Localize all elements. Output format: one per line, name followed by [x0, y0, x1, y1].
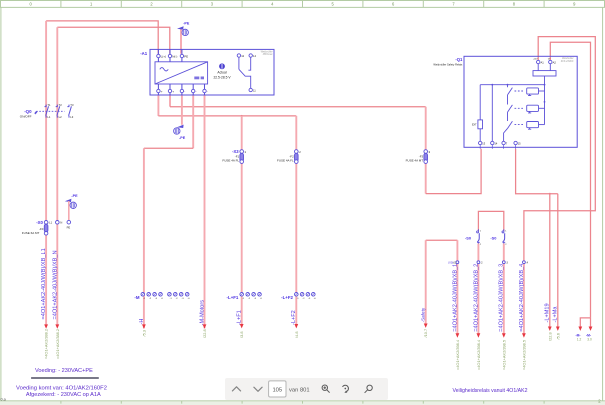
svg-text:van 801: van 801: [289, 387, 310, 393]
wire XB_4 below terminal circle to sheet arrow: [523, 262, 525, 334]
pin A1 of Q1: [537, 60, 540, 63]
emergency stop contact S0 at x=478.4: [465, 229, 482, 246]
svg-text:FUSE 4A FL: FUSE 4A FL: [277, 159, 294, 163]
svg-text:-L+F2: -L+F2: [281, 295, 293, 300]
svg-text:-: -: [184, 90, 185, 94]
pin 7 of Q1: [502, 141, 505, 144]
svg-text:/4.8: /4.8: [294, 332, 299, 339]
svg-text:-S0: -S0: [465, 236, 471, 241]
svg-text:/22.8: /22.8: [547, 332, 552, 341]
svg-text:=4O1+AK2-40J/W(B)/XB_1: =4O1+AK2-40J/W(B)/XB_1: [452, 264, 458, 332]
svg-text::4: :4: [526, 262, 529, 265]
svg-text:=4O1+AK2/388.2: =4O1+AK2/388.2: [44, 329, 49, 359]
plug pin :2: [477, 261, 480, 264]
svg-text:14: 14: [253, 54, 256, 58]
pin 15 of Q1: [514, 141, 517, 144]
svg-text:-L+F2: -L+F2: [291, 310, 297, 325]
svg-text:-0: -0: [260, 298, 263, 300]
svg-text:+: +: [161, 90, 163, 94]
svg-text:+24V: +24V: [533, 58, 538, 60]
page navigation toolbar: [225, 378, 388, 400]
svg-text:-1: -1: [242, 298, 245, 300]
wire L1 vertical through -Q0, -X0:L1 and -F0 down to sheet arrow: [45, 21, 47, 325]
wire N vertical through -Q0 and -X0:N down to sheet arrow: [56, 27, 58, 324]
svg-text:L2: L2: [59, 115, 62, 119]
svg-text:-1: -1: [143, 298, 146, 300]
svg-text:Weidmüller: Weidmüller: [562, 58, 574, 60]
svg-text:T1: T1: [47, 103, 51, 107]
sheet description texts: [16, 368, 528, 398]
svg-text:/3.8: /3.8: [239, 332, 244, 339]
junction 15-bus / -L+M19: [549, 193, 551, 195]
svg-text:7: 7: [452, 2, 455, 7]
svg-text:=4O1+AK2/398.5: =4O1+AK2/398.5: [521, 340, 526, 370]
terminal row -L+F2 connector: [281, 293, 316, 301]
svg-text:FUSE 4A MT: FUSE 4A MT: [406, 159, 424, 163]
pin PE of A1: [180, 54, 183, 57]
pin + output of A1: [168, 89, 171, 92]
svg-text:8: 8: [513, 2, 516, 7]
svg-text:-X3: -X3: [232, 149, 239, 154]
svg-text:2: 2: [150, 2, 153, 7]
svg-text:=4O1+AK2-40J/W(B)/XB_2: =4O1+AK2-40J/W(B)/XB_2: [473, 264, 479, 332]
A1 DC-ok relay contact pins 12 14 11: [237, 54, 240, 57]
svg-text:-S0: -S0: [490, 236, 496, 241]
pin - output of A1: [180, 89, 183, 92]
svg-text:-: -: [196, 90, 197, 94]
svg-text:-0: -0: [314, 298, 317, 300]
junction +24V bus / -F1: [241, 115, 243, 117]
off-sheet arrow -M-Motors: [203, 324, 207, 328]
svg-text:-Safety: -Safety: [421, 307, 426, 322]
svg-text:-L+F1: -L+F1: [227, 295, 239, 300]
svg-text:Voeding: - 230VAC+PE: Voeding: - 230VAC+PE: [35, 368, 93, 374]
svg-text:9: 9: [573, 2, 576, 7]
wire A2 stub to second -M- arrow: [590, 318, 592, 327]
off-sheet arrow -L+F1: [240, 324, 244, 328]
svg-text:Veiligheidsrelais vanuit 4O1/A: Veiligheidsrelais vanuit 4O1/AK2: [453, 388, 528, 394]
svg-text:Voeding komt van: 4O1/AK2/160F: Voeding komt van: 4O1/AK2/160F2: [16, 385, 107, 391]
svg-text:1: 1: [505, 231, 507, 233]
svg-text:2: 2: [480, 244, 482, 246]
svg-text:-2: -2: [149, 298, 152, 300]
svg-text:-PE: -PE: [183, 21, 190, 25]
svg-text:L3: L3: [70, 115, 73, 119]
svg-text:-2: -2: [248, 298, 251, 300]
svg-text:6: 6: [392, 2, 395, 7]
wire XB_1 through terminal circle to sheet arrow: [456, 240, 458, 334]
svg-text::3: :3: [506, 262, 509, 265]
pin L(+) of A1: [157, 54, 160, 57]
ground PE symbol at -X0 PE terminal: [65, 194, 78, 209]
svg-text:=4O1+AK2/398.5: =4O1+AK2/398.5: [501, 340, 506, 370]
wire -Safety down to sheet arrow: [425, 240, 427, 324]
wire L1: -Q0 T1 up and over to -A1 L(+): [46, 21, 158, 54]
wire +24V out of -A1 terminal + (2): [169, 95, 171, 107]
svg-text:Actual: Actual: [217, 70, 226, 74]
svg-text:-A1: -A1: [140, 51, 148, 56]
svg-text:+: +: [172, 90, 174, 94]
emergency stop contact S0 at x=503.8: [490, 229, 507, 246]
svg-text:=4O1+AK2-40J/W(B)/XB_N: =4O1+AK2-40J/W(B)/XB_N: [52, 250, 58, 319]
wire +24V horizontal feed to -F3: [170, 106, 426, 108]
svg-text:-3: -3: [155, 298, 158, 300]
svg-text:-2: -2: [176, 298, 179, 300]
svg-text:105: 105: [272, 388, 282, 394]
svg-text:1.2: 1.2: [577, 338, 582, 342]
wire XB_3 below -S0 to sheet arrow: [503, 244, 505, 335]
wire XB_2 below -S0 to sheet arrow: [477, 244, 479, 335]
svg-text:-3: -3: [182, 298, 185, 300]
svg-text:-0: -0: [161, 298, 164, 300]
pin - output of A1: [203, 89, 206, 92]
off-sheet arrow -Safety: [424, 324, 428, 328]
wire from -F3 to -Q1 terminal 13: [426, 149, 481, 194]
off-sheet arrow -M- (2): [589, 327, 593, 331]
svg-text:12: 12: [241, 54, 244, 58]
search icon: [365, 385, 373, 393]
wire -M-Motors from -A1 minus terminal down to sheet arrow: [204, 95, 206, 328]
pin N(-) of A1: [168, 54, 171, 57]
wire from -Q1 terminal 15 to -L+M19 / -L+Ma: [516, 149, 558, 194]
svg-text:7: 7: [506, 141, 508, 145]
forced contacts of Q1: [504, 84, 545, 142]
svg-text:4: 4: [271, 2, 274, 7]
svg-text:A1: A1: [541, 60, 545, 64]
svg-text:-PE: -PE: [71, 194, 78, 198]
terminal row -L+F1 connector: [227, 293, 263, 301]
wire PE stub from PE symbol to -A1 PE terminal: [180, 29, 182, 54]
safety relay Q1: [433, 56, 577, 149]
ground PE symbol at top near -A1: [177, 21, 190, 35]
svg-text:-PE: -PE: [179, 136, 186, 140]
wire -L+M19 down to sheet arrow: [549, 194, 551, 327]
svg-text:-L+Ma: -L+Ma: [553, 306, 559, 323]
svg-text:T2: T2: [59, 103, 63, 107]
svg-text::N: :N: [60, 221, 63, 225]
svg-text:N(-): N(-): [172, 55, 177, 59]
title underline: [31, 377, 99, 378]
svg-text:PE: PE: [67, 226, 71, 230]
svg-text:L(+): L(+): [161, 55, 166, 59]
svg-text:5: 5: [332, 2, 335, 7]
AC/DC converter symbol: [155, 62, 208, 84]
pin A2 of Q1: [549, 60, 552, 63]
svg-text:-1: -1: [170, 298, 173, 300]
svg-text::1: :1: [244, 150, 247, 154]
svg-text:1: 1: [480, 231, 482, 233]
svg-text:Afgezekerd: - 230VAC op A1A: Afgezekerd: - 230VAC op A1A: [26, 392, 101, 398]
off-sheet arrow -L+Ma: [556, 327, 560, 331]
svg-text:3.0: 3.0: [587, 338, 592, 342]
svg-text:2: 2: [505, 244, 507, 246]
wire +24V horizontal bus feeding -F1 and -F2: [158, 115, 296, 117]
svg-text:14: 14: [494, 141, 497, 145]
off-sheet arrow XB_2: [477, 333, 481, 337]
power supply unit A1: [140, 49, 274, 95]
fuse -F2 FUSE 4A FL on -X3:2: [277, 150, 301, 164]
zoom-in icon: [322, 385, 330, 393]
svg-text:-Q1: -Q1: [455, 57, 463, 62]
svg-text:/5.3: /5.3: [141, 330, 146, 337]
svg-text:11: 11: [253, 88, 256, 92]
svg-text:-0: -0: [188, 298, 191, 300]
off-sheet arrow XB_1: [456, 333, 460, 337]
svg-text:=4O1+AK2/398.4: =4O1+AK2/398.4: [476, 339, 481, 370]
fit/rotate icon: [343, 385, 349, 393]
svg-text:/5.6: /5.6: [555, 333, 560, 340]
svg-text:-3: -3: [308, 298, 311, 300]
svg-text:-H: -H: [139, 319, 145, 325]
svg-text:-: -: [207, 90, 208, 94]
svg-text:SCS 24VDC: SCS 24VDC: [561, 60, 574, 63]
svg-text:=4O1+AK2-40J/W(B)/XB_L1: =4O1+AK2-40J/W(B)/XB_L1: [41, 248, 47, 319]
wire bridge -Safety to XB_1: [426, 239, 458, 241]
wire 0V horizontal to -H branch: [144, 147, 193, 149]
off-sheet arrow XB_L1: [44, 324, 48, 328]
plug pin :01: [456, 261, 459, 264]
svg-text::2: :2: [299, 150, 302, 154]
svg-text:/10.7: /10.7: [423, 329, 428, 338]
svg-text:15: 15: [518, 141, 521, 145]
svg-text::3: :3: [428, 150, 431, 154]
off-sheet arrow -H: [142, 324, 146, 328]
output adjust knob, Actual 22.5-28.5 V: [219, 63, 225, 69]
wire -L+F1 through fuse -F1 down to sheet arrow: [241, 116, 243, 325]
off-sheet arrow XB_3: [502, 333, 506, 337]
plug pin :3: [502, 261, 505, 264]
svg-text:0: 0: [30, 2, 33, 7]
svg-text:-M-Motors: -M-Motors: [199, 300, 205, 326]
svg-text:-3: -3: [254, 298, 257, 300]
terminal X0:PE: [67, 220, 71, 224]
wire 0V from -A1 minus terminal (2): [192, 95, 194, 148]
svg-text:22.5-28.5 V: 22.5-28.5 V: [213, 76, 231, 80]
svg-text:EXT: EXT: [472, 124, 477, 127]
svg-text:A2: A2: [553, 60, 557, 64]
svg-text:=4O1+AK2/388.2: =4O1+AK2/388.2: [55, 329, 60, 359]
svg-text::L1: :L1: [48, 221, 52, 225]
svg-text:=4O1+AK2-40J/W(B)/XB_3: =4O1+AK2-40J/W(B)/XB_3: [499, 264, 505, 332]
svg-text:-2: -2: [303, 298, 306, 300]
svg-text:1: 1: [90, 2, 93, 7]
wire through fuse -F3 down: [425, 107, 427, 194]
wire -Q1 A2 return via right margin: [550, 42, 590, 318]
svg-text:-L+F1: -L+F1: [237, 310, 243, 325]
svg-text:ON/OFF: ON/OFF: [20, 114, 32, 118]
wire -L+Ma down to sheet arrow: [557, 194, 559, 327]
svg-text:L1: L1: [47, 115, 50, 119]
pin 13 of Q1: [479, 141, 482, 144]
svg-text:3: 3: [211, 2, 214, 7]
svg-text:-M: -M: [134, 295, 139, 300]
pin - output of A1: [192, 89, 195, 92]
pin + output of A1: [157, 89, 160, 92]
off-sheet arrow -M- (1): [578, 327, 582, 331]
fuse F0 FUSE 6A MT: [44, 224, 48, 232]
ground PE symbol below -A1 minus output: [174, 125, 186, 140]
svg-text:0.a: 0.a: [1, 398, 7, 402]
svg-text:FUSE 6A MT: FUSE 6A MT: [22, 231, 40, 235]
off-sheet arrow XB_N: [55, 324, 59, 328]
wire N: -Q0 T2 over to -A1 N(-): [57, 27, 170, 53]
svg-text:=4O1+AK2-40J/W(B)/XB_4: =4O1+AK2-40J/W(B)/XB_4: [519, 264, 525, 332]
svg-text:-1: -1: [297, 298, 300, 300]
off-sheet arrow -L+F2: [294, 324, 298, 328]
main switch Q0 3-pole ON/OFF: [35, 105, 72, 118]
svg-text:/22.8: /22.8: [202, 329, 207, 338]
svg-text:PROmax: PROmax: [263, 53, 274, 56]
wire -H down through -M terminal to sheet arrow: [143, 148, 145, 328]
off-sheet arrow XB_4: [522, 333, 526, 337]
svg-text:PE: PE: [184, 55, 188, 59]
wire A2 branch to -M- arrows: [580, 318, 590, 327]
svg-text:-X0: -X0: [36, 220, 43, 225]
off-sheet arrow -L+M19: [548, 327, 552, 331]
terminal row -M connector: [134, 293, 190, 301]
coil of Q1: [533, 71, 556, 76]
wire -L+F2 through fuse -F2 down to sheet arrow: [295, 116, 297, 325]
plug pin :4: [523, 261, 526, 264]
svg-text:=4O1+AK2/398.4: =4O1+AK2/398.4: [455, 339, 460, 370]
svg-text:FUSE 4A FL: FUSE 4A FL: [222, 159, 239, 163]
svg-text:-F0: -F0: [39, 227, 44, 231]
svg-text:Weidmüller Safety Relais: Weidmüller Safety Relais: [433, 62, 463, 66]
EXT fuse inside Q1: [478, 120, 483, 129]
wire 0V from -A1 minus terminal to PE ground bond: [181, 95, 183, 125]
svg-text:T3: T3: [70, 103, 74, 107]
fuse -F1 FUSE 4A FL on -X3:1: [222, 149, 246, 163]
svg-text:13: 13: [482, 141, 485, 145]
pin 14 of Q1: [491, 141, 494, 144]
svg-text:-L+M19: -L+M19: [545, 303, 551, 322]
wire -Q1 A1 supply loop via right margin: [524, 37, 595, 263]
internal bus of Q1: [480, 85, 544, 142]
terminal X0:L1: [44, 221, 48, 225]
svg-text:-Q0: -Q0: [24, 109, 32, 114]
fuse -F3 FUSE 4A MT on -X3:3: [406, 150, 431, 164]
wire bridge between the two -S0 contacts: [478, 211, 503, 231]
wire +24V out of -A1 terminal + (1): [157, 95, 159, 116]
terminal X0:N: [56, 221, 60, 225]
svg-text::2: :2: [480, 262, 483, 265]
wire PE stub at -X0: [68, 201, 70, 221]
